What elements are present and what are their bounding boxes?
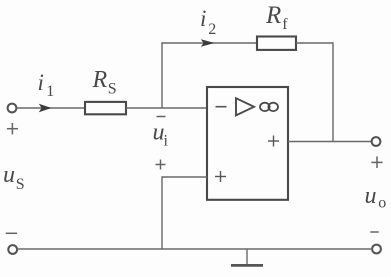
svg-text:f: f	[282, 16, 288, 33]
svg-text:S: S	[16, 176, 25, 193]
wire: input wire left of RS	[16, 107, 85, 109]
current arrow i2	[201, 39, 215, 47]
svg-text:i: i	[200, 6, 206, 31]
output terminal	[372, 137, 381, 146]
wire: noninverting input wire	[162, 176, 207, 178]
svg-text:u: u	[365, 183, 377, 209]
op-amp triangle symbol	[236, 98, 254, 115]
wire: vertical from noninverting node down to bottom rail	[161, 176, 163, 249]
label ui	[153, 119, 169, 149]
ground	[231, 249, 263, 265]
svg-text:u: u	[3, 162, 15, 188]
polarity - (above bottom-right terminal)	[370, 231, 378, 233]
node at inverting input junction: vertical wire up to feedback	[161, 43, 163, 108]
svg-text:R: R	[265, 2, 281, 29]
bottom-left terminal	[8, 245, 17, 254]
resistor Rf	[257, 37, 296, 50]
svg-text:S: S	[108, 80, 117, 97]
bottom-right terminal	[372, 245, 381, 254]
op-amp noninverting input mark +	[215, 171, 226, 182]
resistor RS	[85, 102, 126, 114]
svg-text:R: R	[92, 67, 108, 93]
wire: output wire	[288, 141, 372, 143]
svg-text:o: o	[378, 195, 386, 212]
svg-text:i: i	[164, 133, 169, 150]
label RS	[92, 67, 117, 98]
op-amp output polarity +	[268, 136, 279, 147]
op-amp U1 box	[207, 87, 288, 200]
op-amp inverting input mark -	[216, 106, 227, 108]
label uo	[365, 183, 387, 212]
current arrow i1	[39, 104, 52, 112]
label ui polarity -	[157, 116, 166, 118]
wire: input wire right of RS to op-amp inverting input	[126, 107, 207, 109]
label i1	[38, 70, 55, 100]
polarity + (below output terminal)	[371, 156, 382, 168]
polarity + (below input terminal)	[7, 123, 18, 134]
polarity - (above bottom-left terminal)	[6, 232, 17, 234]
label Rf	[265, 2, 288, 33]
svg-text:1: 1	[46, 83, 54, 100]
wire: feedback vertical down to output	[332, 42, 334, 141]
svg-text:2: 2	[208, 21, 216, 38]
label ui polarity +	[156, 160, 166, 170]
input terminal (top-left)	[8, 104, 17, 113]
svg-text:i: i	[38, 70, 44, 95]
wire: bottom rail	[17, 248, 372, 250]
label uS	[3, 162, 25, 193]
op-amp infinity gain symbol	[260, 103, 278, 111]
label i2	[200, 6, 216, 38]
wire: feedback top wire left of Rf	[161, 42, 257, 44]
wire: feedback top wire right of Rf	[296, 42, 333, 44]
